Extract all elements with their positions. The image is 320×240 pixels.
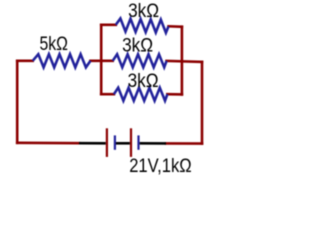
svg-text:5kΩ: 5kΩ [40,34,69,55]
svg-text:3kΩ: 3kΩ [122,36,153,57]
svg-text:21V,1kΩ: 21V,1kΩ [129,156,192,177]
svg-text:3kΩ: 3kΩ [128,71,159,92]
svg-text:3kΩ: 3kΩ [128,1,159,22]
